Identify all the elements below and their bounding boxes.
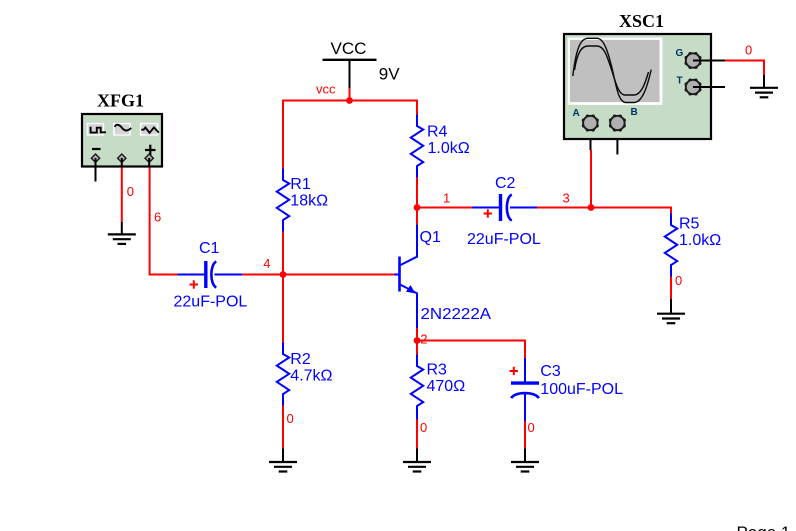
svg-text:4.7kΩ: 4.7kΩ bbox=[290, 367, 332, 384]
label R2 value 4.7k bbox=[290, 351, 332, 385]
wire R5 to ground bbox=[670, 277, 672, 301]
wire R4 to node 1 bbox=[416, 178, 418, 208]
ground under R3 bbox=[403, 449, 431, 472]
svg-text:C1: C1 bbox=[199, 240, 220, 257]
node 3 bbox=[588, 204, 595, 211]
svg-text:1.0kΩ: 1.0kΩ bbox=[679, 232, 721, 249]
oscilloscope XSC1 bbox=[564, 11, 711, 139]
wire node 2 to R3 bbox=[416, 341, 418, 355]
svg-text:XSC1: XSC1 bbox=[619, 11, 664, 31]
svg-text:Page 1: Page 1 bbox=[737, 523, 791, 531]
svg-text:3: 3 bbox=[563, 190, 570, 205]
wire emitter to node 2 bbox=[416, 328, 418, 341]
node 2 bbox=[414, 337, 421, 344]
wire XFG1 minus stub bbox=[95, 158, 97, 182]
plus sign bbox=[145, 149, 156, 151]
svg-text:1.0kΩ: 1.0kΩ bbox=[428, 140, 470, 157]
capacitor C1 22uF-POL bbox=[178, 261, 243, 288]
svg-text:T: T bbox=[677, 76, 683, 87]
svg-text:0: 0 bbox=[287, 411, 294, 426]
wire C2 to node 3 bbox=[537, 207, 591, 209]
svg-text:470Ω: 470Ω bbox=[427, 378, 466, 395]
svg-text:1: 1 bbox=[443, 191, 450, 206]
label R5 value 1.0k bbox=[679, 215, 721, 249]
terminal knobs bbox=[91, 154, 99, 162]
wire R2 to ground bbox=[282, 406, 284, 450]
svg-text:0: 0 bbox=[745, 43, 752, 58]
wire node 2 to C3 bbox=[417, 341, 525, 359]
svg-text:B: B bbox=[631, 107, 638, 118]
function generator XFG1 bbox=[82, 91, 162, 167]
wire VCC to R1 bbox=[282, 100, 284, 169]
resistor R1 bbox=[277, 169, 289, 232]
wire collector to node 1 bbox=[416, 208, 418, 225]
scope trace A bbox=[573, 38, 651, 102]
svg-text:R5: R5 bbox=[679, 215, 700, 232]
wire C3 to ground bbox=[524, 421, 526, 450]
wire scope T stub bbox=[693, 86, 725, 88]
capacitor C3 100uF-POL bbox=[511, 358, 539, 421]
svg-text:R4: R4 bbox=[427, 124, 448, 141]
resistor R2 bbox=[277, 343, 289, 406]
svg-text:0: 0 bbox=[528, 420, 535, 435]
triangle wave button bbox=[140, 123, 158, 136]
wire XFG1 common to ground bbox=[121, 158, 123, 168]
wire VCC rail bbox=[283, 100, 417, 102]
wire VCC to R4 bbox=[416, 100, 418, 115]
ground under XFG1 bbox=[108, 234, 136, 244]
wire R3 to ground bbox=[416, 420, 418, 450]
svg-text:22uF-POL: 22uF-POL bbox=[174, 293, 248, 310]
svg-text:18kΩ: 18kΩ bbox=[290, 193, 328, 210]
wire scope G to ground bbox=[693, 60, 725, 62]
plus sign C1 bbox=[190, 280, 199, 288]
svg-text:A: A bbox=[573, 108, 580, 119]
svg-text:9V: 9V bbox=[379, 64, 400, 83]
wire node 4 to R2 bbox=[282, 275, 284, 343]
label R4 value 1.0k bbox=[427, 124, 470, 158]
svg-text:4: 4 bbox=[263, 256, 270, 271]
svg-text:C3: C3 bbox=[540, 363, 561, 380]
minus sign bbox=[92, 148, 101, 150]
power supply VCC bbox=[323, 39, 401, 101]
label R3 value 470 bbox=[427, 362, 466, 396]
ground under C3 bbox=[511, 449, 539, 472]
svg-text:0: 0 bbox=[127, 184, 134, 199]
ground at scope bbox=[750, 88, 778, 98]
wire scope B stub bbox=[616, 123, 618, 155]
resistor R5 bbox=[665, 214, 677, 277]
square wave button bbox=[87, 123, 105, 136]
svg-text:0: 0 bbox=[675, 273, 682, 288]
Q1 emitter arrow bbox=[406, 285, 415, 293]
svg-text:R2: R2 bbox=[290, 351, 311, 368]
svg-text:6: 6 bbox=[154, 210, 161, 225]
svg-text:22uF-POL: 22uF-POL bbox=[467, 231, 541, 248]
plus sign C3 bbox=[510, 367, 519, 375]
sine wave button bbox=[113, 123, 131, 136]
wire node 1 to C2 bbox=[417, 207, 473, 209]
svg-text:XFG1: XFG1 bbox=[97, 91, 144, 111]
wire XFG1 plus to C1 net 6 bbox=[148, 158, 150, 168]
svg-text:100uF-POL: 100uF-POL bbox=[540, 381, 623, 398]
svg-text:Q1: Q1 bbox=[420, 229, 441, 246]
wire node 3 to R5 corner bbox=[591, 208, 671, 214]
svg-text:R1: R1 bbox=[290, 176, 311, 193]
node vcc junction bbox=[346, 97, 353, 104]
wire C1 to node 4 bbox=[242, 274, 283, 276]
ground under R2 bbox=[269, 449, 297, 472]
svg-text:G: G bbox=[676, 48, 684, 59]
svg-text:2N2222A: 2N2222A bbox=[421, 306, 492, 323]
scope trace B bbox=[575, 46, 649, 95]
svg-text:2: 2 bbox=[420, 332, 427, 347]
svg-text:VCC: VCC bbox=[331, 39, 367, 58]
resistor R4 bbox=[411, 115, 423, 178]
wire scope A to node 3 bbox=[590, 150, 592, 208]
resistor R3 bbox=[411, 355, 423, 420]
node 4 bbox=[280, 271, 287, 278]
svg-text:0: 0 bbox=[420, 420, 427, 435]
svg-text:vcc: vcc bbox=[316, 82, 336, 97]
svg-text:C2: C2 bbox=[495, 175, 516, 192]
ground under R5 bbox=[657, 299, 685, 323]
plus sign C2 bbox=[484, 209, 493, 217]
capacitor C2 22uF-POL bbox=[472, 194, 537, 221]
label R1 value 18k bbox=[290, 176, 328, 210]
wire base bbox=[283, 274, 394, 276]
transistor Q1 2N2222A bbox=[400, 225, 418, 329]
svg-text:R3: R3 bbox=[427, 362, 448, 379]
node 1 bbox=[414, 204, 421, 211]
wire R1 to node 4 bbox=[282, 232, 284, 275]
